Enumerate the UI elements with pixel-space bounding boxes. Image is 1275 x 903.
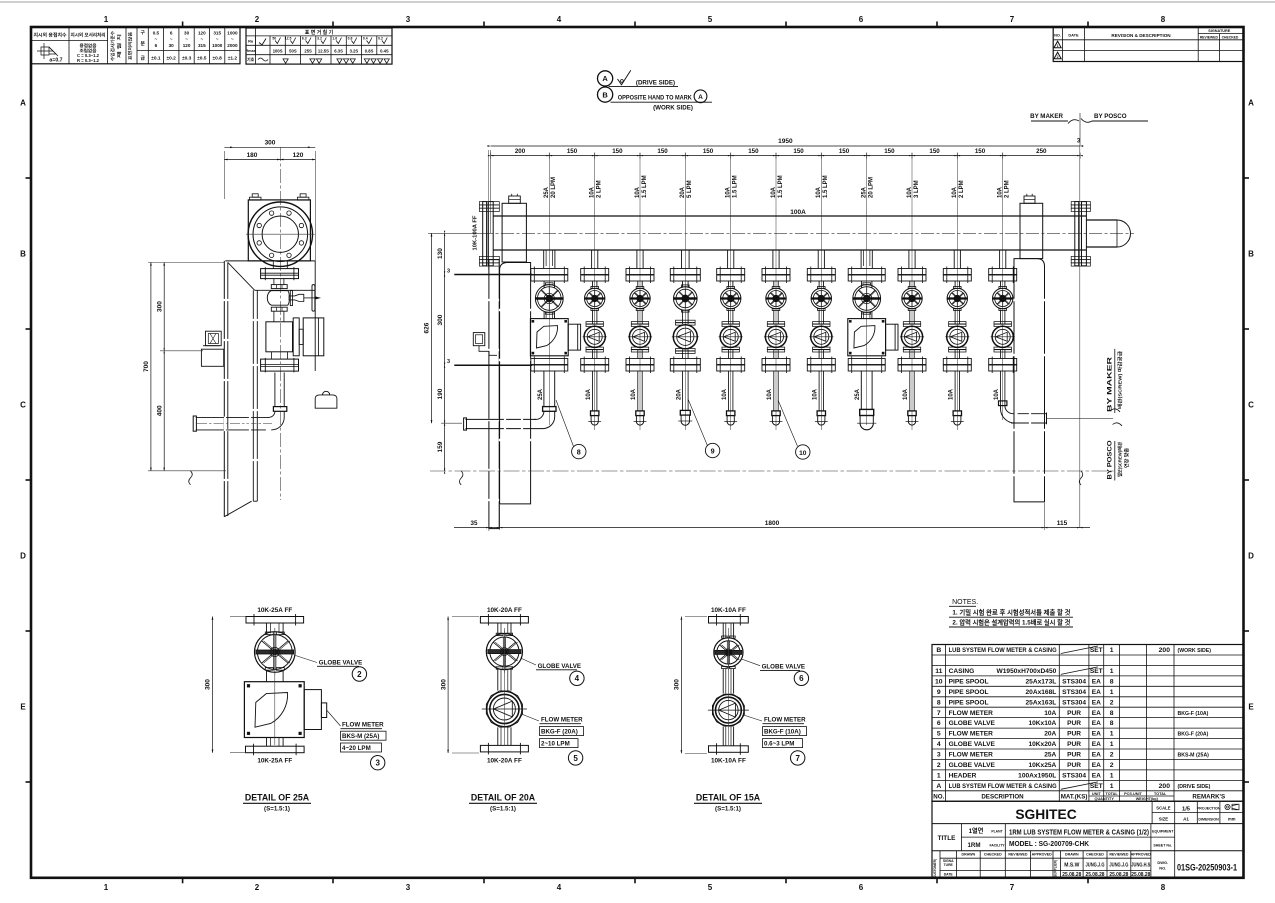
casing left side plate [488,260,500,529]
svg-text:1: 1 [937,773,941,780]
svg-text:10: 10 [935,679,943,686]
svg-text:TOTAL: TOTAL [1105,792,1118,796]
svg-text:~: ~ [216,37,219,42]
svg-text:표 면 거 칠 기: 표 면 거 칠 기 [305,29,334,36]
svg-text:6: 6 [859,883,864,892]
svg-text:E: E [1248,703,1254,712]
svg-text:0.4S: 0.4S [380,48,389,53]
svg-text:200: 200 [1159,783,1171,790]
svg-text:2 LPM: 2 LPM [597,180,603,198]
svg-text:3.2: 3.2 [317,37,322,41]
svg-text:25Ax173L: 25Ax173L [1026,679,1057,686]
detail 20A globe valve [486,631,522,691]
svg-text:1000: 1000 [227,31,238,36]
svg-text:2. 압력 시험은 설계압력의 1.5배로 실시 할 것: 2. 압력 시험은 설계압력의 1.5배로 실시 할 것 [952,617,1070,626]
main view dimension 1950 [488,138,1084,147]
svg-text:2: 2 [1110,762,1114,769]
svg-text:10A: 10A [903,388,909,400]
svg-text:DATE: DATE [944,873,954,877]
svg-text:3: 3 [406,15,411,24]
detail 25A dimension 300 [205,617,214,753]
branch 2 (10A 2LPM) globe valve and flow meter assembly [581,250,609,425]
svg-text:1: 1 [1057,44,1059,48]
svg-text:10A: 10A [949,388,955,400]
svg-text:1000: 1000 [212,43,223,48]
svg-text:4: 4 [937,741,941,748]
svg-text:6: 6 [170,31,173,36]
svg-text:10A: 10A [586,388,592,400]
svg-text:EA: EA [1092,679,1101,686]
svg-text:8: 8 [937,699,941,706]
svg-text:SGHITEC: SGHITEC [1015,807,1076,822]
svg-text:5: 5 [708,883,713,892]
svg-text:EQUIPMENT: EQUIPMENT [1152,830,1174,834]
side view drop pipe with elbow [193,373,287,432]
svg-text:PUR: PUR [1067,731,1081,738]
svg-text:25A: 25A [538,388,544,400]
svg-text:STS304: STS304 [1062,699,1086,706]
svg-text:5 LPM: 5 LPM [687,180,693,198]
svg-text:A: A [1248,99,1254,108]
svg-text:4: 4 [557,883,562,892]
svg-text:300: 300 [205,679,212,690]
svg-text:1.5 LPM: 1.5 LPM [642,175,648,198]
side view dimension 180 and 120 [224,152,315,160]
svg-text:120: 120 [293,152,304,159]
svg-text:FLOW METER: FLOW METER [949,710,994,717]
svg-text:50: 50 [272,37,276,41]
svg-text:2: 2 [357,670,362,679]
svg-text:190: 190 [437,388,444,399]
svg-text:10Kx20A: 10Kx20A [1028,741,1056,748]
side view drain weight fitting [315,391,337,408]
header right support block [1020,194,1043,259]
svg-text:PIPE SPOOL: PIPE SPOOL [949,689,989,696]
svg-text:B: B [20,250,26,259]
branch 3 (10A 1.5LPM) globe valve and flow meter assembly [626,250,654,425]
detail 25A top flange 10K-25A FF [230,607,304,633]
svg-text:300: 300 [440,679,447,690]
svg-text:10K-25A FF: 10K-25A FF [257,607,292,614]
svg-text:재 질 치: 재 질 치 [116,33,122,58]
svg-text:1: 1 [104,883,109,892]
svg-text:EA: EA [1092,731,1101,738]
svg-text:130: 130 [437,248,444,259]
svg-text:A: A [602,74,608,83]
detail 15A dimension 300 [674,617,707,754]
svg-text:20Ax168L: 20Ax168L [1026,689,1057,696]
detail 25A globe valve [254,629,295,682]
svg-text:EA: EA [1092,720,1101,727]
header left flange 10K-100A FF [479,202,499,266]
svg-text:NO.: NO. [933,793,944,800]
detail 15A flow meter BKG-F [708,628,749,745]
svg-text:10A: 10A [1044,710,1056,717]
svg-text:1: 1 [1110,773,1114,780]
svg-text:626: 626 [424,322,431,333]
svg-text:0.8: 0.8 [348,37,353,41]
branch 1 (25A 20LPM) globe valve and flow meter assembly [530,250,580,411]
svg-text:(WORK SIDE): (WORK SIDE) [1178,648,1212,654]
by maker by posco boundary note [1030,113,1148,146]
svg-text:150: 150 [793,148,804,155]
svg-text:PUR: PUR [1067,752,1081,759]
svg-text:(S=1.5:1): (S=1.5:1) [490,806,516,813]
by maker note rotated right side [1107,349,1124,413]
svg-text:~: ~ [231,37,234,42]
svg-text:SET: SET [1090,783,1103,790]
svg-text:BKG-F (10A): BKG-F (10A) [1178,711,1209,717]
detail 20A flow meter BKG-F [482,628,527,745]
svg-text:BKG-F (20A): BKG-F (20A) [541,729,578,736]
svg-text:PROJECTION: PROJECTION [1197,806,1221,810]
svg-text:3: 3 [447,359,450,365]
svg-text:100S: 100S [273,48,283,53]
svg-text:B: B [602,90,608,99]
svg-text:a=0.7: a=0.7 [49,58,62,64]
note B work side marking [598,87,713,111]
svg-text:UNIT: UNIT [1092,792,1102,796]
svg-text:BY POSCO: BY POSCO [1094,113,1127,120]
svg-text:EA: EA [1092,710,1101,717]
svg-text:BY MAKER: BY MAKER [1107,356,1114,412]
svg-text:25.08.28: 25.08.28 [1086,872,1105,878]
svg-text:B: B [936,647,941,654]
svg-text:10A: 10A [631,388,637,400]
svg-text:REVIEWED: REVIEWED [1109,853,1129,857]
svg-text:150: 150 [839,148,850,155]
main view branch spacing dimensions [488,148,1083,233]
svg-text:1/5: 1/5 [1182,806,1191,812]
svg-text:3: 3 [937,752,941,759]
detail 20A dimension 300 [440,617,479,754]
svg-text:구: 구 [140,29,145,36]
svg-text:10K-20A FF: 10K-20A FF [487,758,522,765]
svg-text:TURE: TURE [944,863,954,867]
svg-text:(DRIVE SIDE): (DRIVE SIDE) [636,80,675,87]
svg-text:SHEET No.: SHEET No. [1153,844,1172,848]
svg-text:5: 5 [708,15,713,24]
svg-text:3 LPM: 3 LPM [914,180,920,198]
right drain continuation centerline with break [1047,409,1123,426]
svg-text:2: 2 [255,883,260,892]
svg-text:~: ~ [170,37,173,42]
svg-text:GLOBE VALVE: GLOBE VALVE [762,663,805,670]
svg-text:159: 159 [437,441,444,452]
header left support block [502,194,526,262]
svg-text:OPPOSITE HAND TO MARK: OPPOSITE HAND TO MARK [618,95,692,102]
svg-text:SIGNATURE: SIGNATURE [1208,29,1231,33]
svg-text:7: 7 [1010,883,1015,892]
svg-text:(S=1.5:1): (S=1.5:1) [715,806,741,813]
svg-text:6: 6 [937,720,941,727]
svg-text:200: 200 [1159,647,1171,654]
general tolerance table [31,27,240,64]
svg-text:BKS-M (25A): BKS-M (25A) [342,733,379,740]
side view upper flange pair [261,261,299,280]
right drain pipe with elbow [1001,406,1047,425]
svg-text:APPROVED: APPROVED [1032,853,1053,857]
svg-text:1: 1 [1110,647,1114,654]
detail 25A flow meter BKS-M body [244,628,326,745]
branch 7 (10A 1.5LPM) globe valve and flow meter assembly [807,250,835,425]
general notes text [949,599,1073,627]
svg-text:0.8S: 0.8S [365,48,374,53]
header right flange centerline [1079,146,1081,528]
branch 6 (10A 1.5LPM) globe valve and flow meter assembly [762,250,790,425]
svg-text:지시외 용접치수: 지시외 용접치수 [34,32,67,39]
svg-text:6.3S: 6.3S [334,48,343,53]
svg-text:NO.: NO. [1054,33,1061,38]
svg-text:10Kx25A: 10Kx25A [1028,762,1056,769]
svg-text:STS304: STS304 [1062,773,1086,780]
svg-text:315: 315 [213,31,221,36]
svg-text:30: 30 [184,31,190,36]
svg-text:0.2: 0.2 [378,37,383,41]
svg-text:(CUSTOMER): (CUSTOMER) [933,859,937,879]
svg-text:FLOW METER: FLOW METER [949,731,994,738]
svg-text:150: 150 [975,148,986,155]
svg-text:B: B [1248,250,1254,259]
svg-text:EA: EA [1092,752,1101,759]
svg-text:EA: EA [1092,741,1101,748]
svg-text:REVIEWED: REVIEWED [1200,36,1219,40]
svg-text:20 LPM: 20 LPM [551,177,557,198]
callout balloon 9 pipe spool 20A [688,399,720,458]
svg-text:2: 2 [1110,699,1114,706]
branch 10 (10A 2LPM) globe valve and flow meter assembly [943,250,971,425]
svg-text:BKG-F (20A): BKG-F (20A) [1178,732,1209,738]
svg-text:2 LPM: 2 LPM [1005,180,1011,198]
svg-text:DRAWN: DRAWN [1065,853,1079,857]
side view header flange plate (square) [248,194,310,261]
svg-text:120: 120 [183,43,191,48]
svg-text:1RM: 1RM [967,842,980,849]
svg-text:0.5: 0.5 [153,31,160,36]
svg-text:D: D [20,552,26,561]
svg-text:4: 4 [557,15,562,24]
svg-text:E: E [20,703,26,712]
svg-text:7: 7 [1010,15,1015,24]
svg-text:100A: 100A [790,209,806,216]
svg-text:0.4: 0.4 [363,37,368,41]
svg-text:NO.: NO. [1159,866,1166,871]
svg-text:120: 120 [198,31,206,36]
svg-text:PIPE SPOOL: PIPE SPOOL [949,679,989,686]
svg-text:5: 5 [937,731,941,738]
svg-text:EA: EA [1092,699,1101,706]
svg-text:DRAWN: DRAWN [962,853,976,857]
svg-text:5: 5 [573,754,578,763]
callout balloon 10 pipe spool 10A [778,400,810,459]
svg-text:12.5: 12.5 [285,37,292,41]
note A drive side marking [598,70,679,86]
svg-text:20A: 20A [677,388,683,400]
third angle projection symbol [1225,804,1239,810]
svg-text:±0.1: ±0.1 [151,56,161,62]
svg-text:10K-25A FF: 10K-25A FF [257,758,292,765]
svg-text:1RM LUB SYSTEM FLOW METER & CA: 1RM LUB SYSTEM FLOW METER & CASING (1/2) [1009,828,1149,837]
svg-text:11: 11 [935,668,942,675]
svg-text:CHECKED: CHECKED [1222,36,1239,40]
svg-text:1: 1 [1110,731,1114,738]
callout balloon 8 pipe spool 25A [556,400,586,459]
header right flange pair [1071,202,1090,266]
floor level line [430,471,1115,485]
svg-text:1.6: 1.6 [332,37,337,41]
side view floor break mark [189,471,193,485]
branch 5 (10A 1.5LPM) globe valve and flow meter assembly [717,250,745,425]
svg-text:LUB SYSTEM FLOW METER & CASING: LUB SYSTEM FLOW METER & CASING [949,783,1057,790]
side view dimensions 300 and 400 [148,262,226,470]
casing bottom edge line left [447,359,532,365]
side view top dimension 300 [224,140,315,263]
svg-text:MAT.(KS): MAT.(KS) [1061,793,1088,800]
side view dimension 700 [143,262,152,470]
side view globe valve [267,279,319,312]
by posco note rotated right side [1107,440,1131,480]
svg-text:150: 150 [567,148,578,155]
svg-text:BKS-M (25A): BKS-M (25A) [1178,753,1210,759]
detail 20A title [469,793,537,813]
detail 25A flow meter callout 3 [327,711,386,770]
svg-text:±0.8: ±0.8 [213,56,223,62]
svg-text:1800: 1800 [765,520,780,527]
surface roughness table [246,28,392,64]
svg-text:FLOW METER: FLOW METER [764,717,806,724]
svg-text:EA: EA [1092,773,1101,780]
svg-text:100Ax1950L: 100Ax1950L [1018,773,1056,780]
svg-text:FLOW METER: FLOW METER [541,717,583,724]
svg-text:(DRIVE SIDE): (DRIVE SIDE) [1178,784,1211,790]
svg-text:50S: 50S [289,48,297,53]
casing junction box main view [473,333,497,356]
svg-text:±0.3: ±0.3 [182,56,192,62]
header left flange centerline [488,150,490,270]
svg-text:A1: A1 [1183,817,1189,822]
svg-text:25A: 25A [855,388,861,400]
svg-text:150: 150 [929,148,940,155]
svg-text:150: 150 [657,148,668,155]
detail 15A globe valve [714,635,743,694]
svg-text:GLOBE VALVE: GLOBE VALVE [949,720,996,727]
detail 15A top flange 10K-10A FF [709,607,749,638]
svg-text:HEADER: HEADER [949,773,977,780]
detail 15A flow meter callout 7 [744,715,807,765]
detail 15A globe valve callout 6 [742,659,809,686]
svg-text:10: 10 [799,450,807,457]
detail 20A flow meter callout 5 [522,714,584,765]
svg-text:분: 분 [140,41,145,47]
svg-text:12.5S: 12.5S [318,48,329,53]
svg-text:GLOBE VALVE: GLOBE VALVE [319,659,362,666]
parts list header row [933,792,1225,801]
svg-text:25A: 25A [1044,752,1056,759]
svg-text:STS304: STS304 [1062,679,1086,686]
svg-text:700: 700 [143,361,150,372]
svg-text:C: C [1248,401,1254,410]
detail 15A bottom flange 10K-10A FF [709,727,749,765]
svg-text:CASING: CASING [949,668,975,675]
svg-text:SET: SET [1090,647,1103,654]
svg-text:2: 2 [255,15,260,24]
svg-text:180: 180 [247,152,258,159]
svg-text:(SUPPLIER): (SUPPLIER) [1054,860,1058,878]
svg-text:1: 1 [1110,668,1114,675]
parts list table grid [932,645,1244,802]
svg-text:LUB SYSTEM FLOW METER & CASING: LUB SYSTEM FLOW METER & CASING [949,647,1057,654]
svg-text:PLANT: PLANT [991,830,1003,834]
svg-text:2: 2 [1110,752,1114,759]
parts list rows data [935,646,1211,790]
svg-text:(S=1.5:1): (S=1.5:1) [264,806,290,813]
svg-text:PCS.UNIT: PCS.UNIT [1124,792,1142,796]
svg-text:BY MAKER: BY MAKER [1030,113,1063,120]
main view vertical dimension 626 [424,233,433,423]
svg-text:10K-20A FF: 10K-20A FF [487,607,522,614]
svg-text:300: 300 [265,140,276,147]
bottom dimension line 35 1800 115 [454,503,1090,531]
svg-text:25.08.28: 25.08.28 [1131,872,1150,878]
svg-text:2 LPM: 2 LPM [959,180,965,198]
svg-text:DETAIL OF 20A: DETAIL OF 20A [471,793,536,803]
svg-text:BY POSCO: BY POSCO [1107,440,1114,479]
svg-text:STS304: STS304 [1062,689,1086,696]
svg-text:6: 6 [155,43,158,48]
svg-text:PUR: PUR [1067,720,1081,727]
svg-text:PUR: PUR [1067,762,1081,769]
branch 8 (25A 20LPM) globe valve and flow meter assembly [848,250,898,430]
svg-text:3.2S: 3.2S [350,48,359,53]
detail 20A top flange 10K-20A FF [480,607,528,635]
svg-text:±0.2: ±0.2 [167,56,177,62]
svg-text:REMARK'S: REMARK'S [1192,793,1225,800]
svg-text:TITLE: TITLE [938,835,956,842]
svg-text:C: C [20,401,26,410]
svg-text:30: 30 [169,43,175,48]
svg-text:01SG-20250903-1: 01SG-20250903-1 [1177,863,1238,874]
svg-text:SET: SET [1090,668,1103,675]
svg-text:GLOBE VALVE: GLOBE VALVE [538,663,581,670]
svg-text:7: 7 [795,754,800,763]
svg-text:8: 8 [577,447,581,456]
svg-text:DWG.: DWG. [1157,860,1168,865]
casing left front plate [499,263,532,504]
svg-text:8: 8 [1161,883,1166,892]
svg-text:~: ~ [155,37,158,42]
svg-text:FLOW METER: FLOW METER [949,752,994,759]
svg-text:300: 300 [437,314,444,325]
casing right side plate [1013,259,1045,502]
svg-text:SCALE: SCALE [1156,805,1170,810]
svg-text:20 LPM: 20 LPM [869,177,875,198]
branch 4 (20A 5LPM) globe valve and flow meter assembly [670,250,700,425]
header right end cap [1086,220,1130,247]
svg-text:7: 7 [937,710,941,717]
svg-text:DETAIL OF 25A: DETAIL OF 25A [245,793,310,803]
svg-text:JUNG.J.G: JUNG.J.G [1109,863,1128,869]
svg-text:4~20 LPM: 4~20 LPM [342,745,371,752]
svg-text:10A: 10A [994,388,1000,400]
svg-text:PUR: PUR [1067,741,1081,748]
svg-text:200: 200 [515,148,526,155]
svg-text:Rmax: Rmax [246,49,256,53]
svg-text:수입검사기준수: 수입검사기준수 [109,31,115,61]
svg-text:9: 9 [711,446,715,455]
svg-text:6: 6 [799,674,804,683]
svg-text:9: 9 [937,689,941,696]
svg-text:지시외 모서리처리: 지시외 모서리처리 [71,32,106,39]
